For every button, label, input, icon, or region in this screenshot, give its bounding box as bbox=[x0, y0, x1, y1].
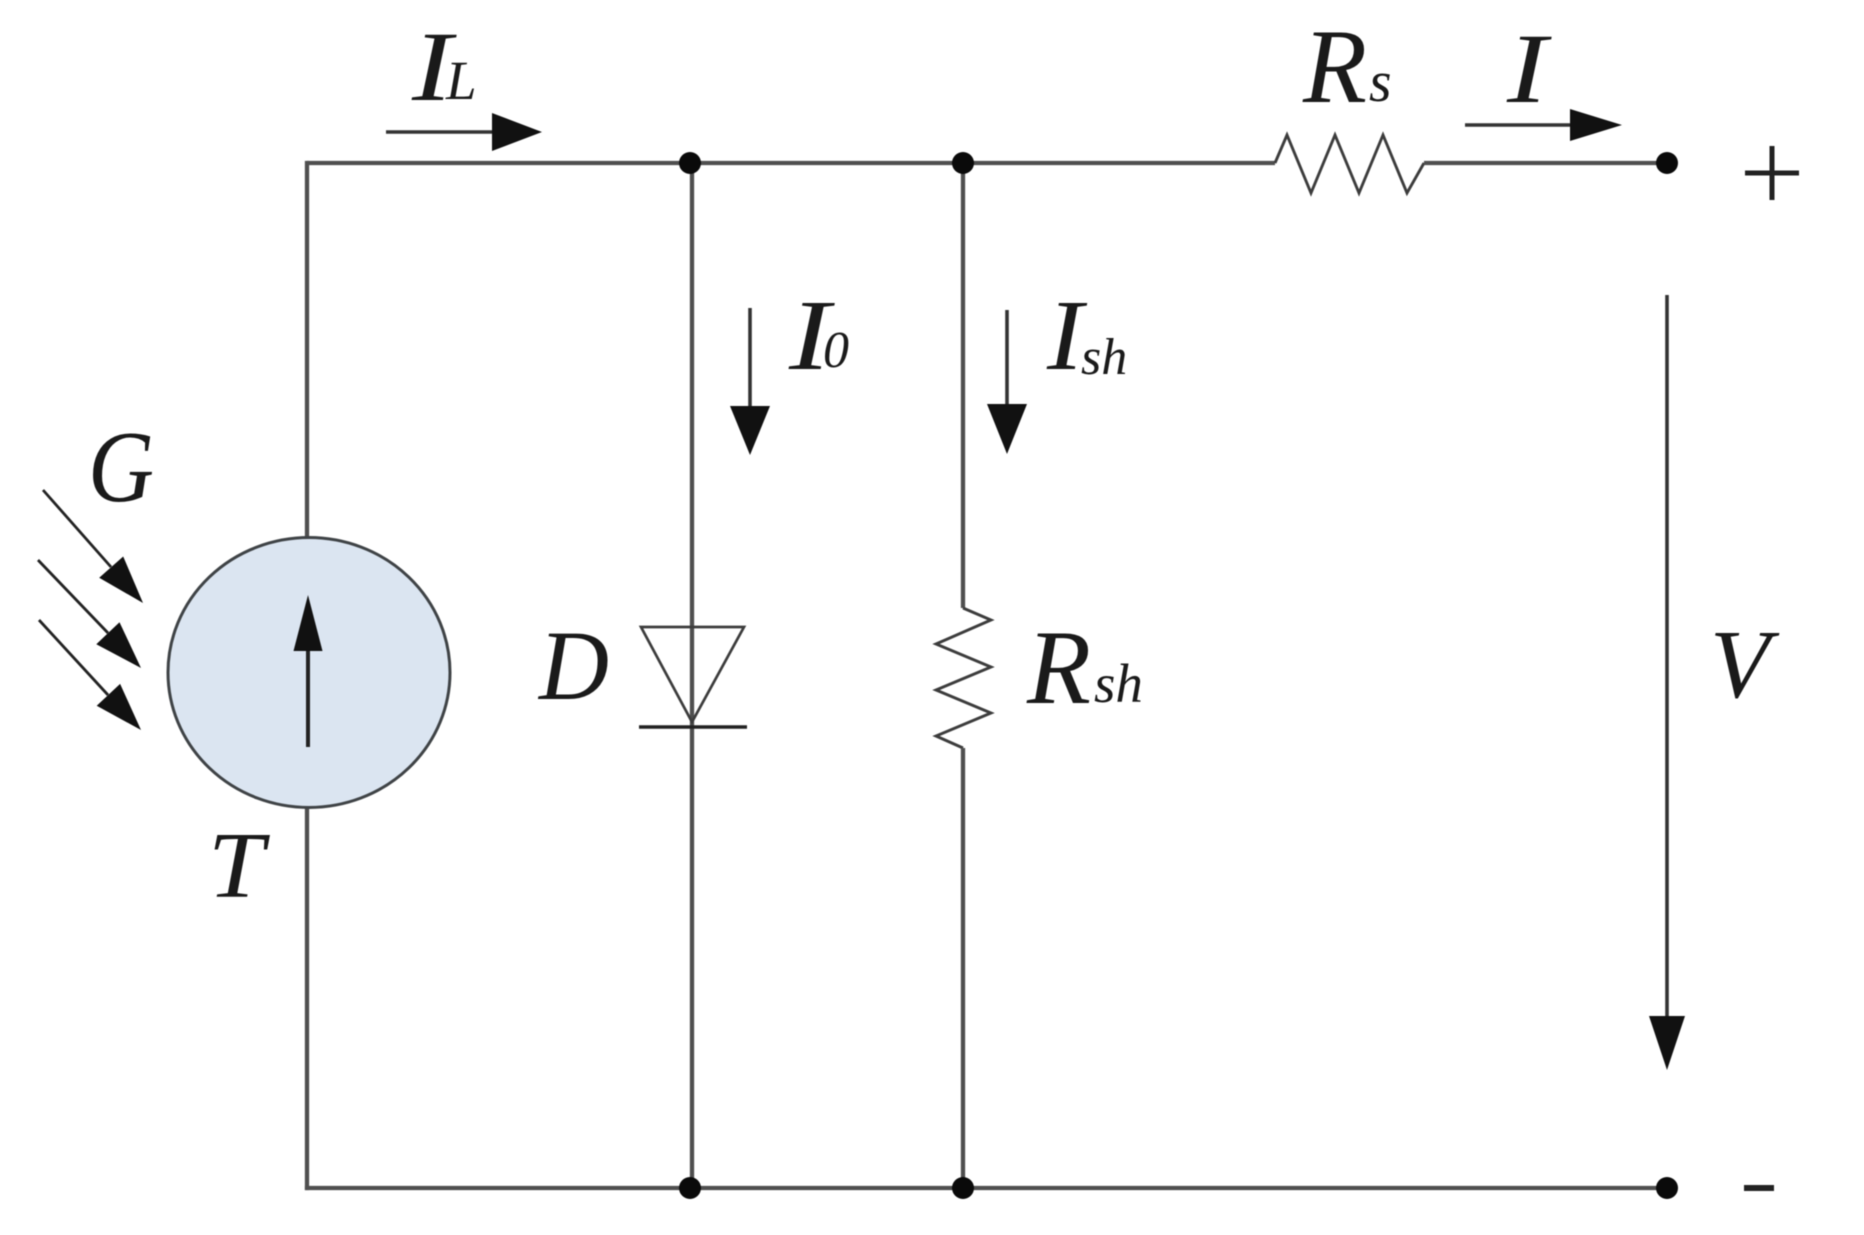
G irradiance arrow 2 bbox=[38, 560, 141, 668]
svg-text:L: L bbox=[445, 50, 477, 111]
resistor Rsh zigzag bbox=[936, 608, 991, 748]
svg-text:0: 0 bbox=[823, 322, 849, 379]
svg-text:s: s bbox=[1369, 49, 1392, 114]
I current arrow bbox=[1465, 109, 1622, 141]
node dot bottom Rsh bbox=[952, 1177, 974, 1199]
G irradiance arrow 1 bbox=[43, 490, 143, 603]
wire top: left segment bbox=[307, 161, 1275, 165]
node dot top diode bbox=[679, 152, 701, 174]
wire left vertical lower bbox=[305, 806, 309, 1190]
svg-text:I: I bbox=[1506, 13, 1553, 124]
wire top: right segment bbox=[1424, 161, 1667, 165]
diode D triangle bbox=[641, 627, 744, 722]
svg-text:V: V bbox=[1710, 611, 1780, 718]
current source arrow bbox=[294, 595, 323, 747]
node dot bottom right bbox=[1656, 1177, 1678, 1199]
node dot bottom diode bbox=[679, 1177, 701, 1199]
diode cathode bar bbox=[639, 725, 747, 728]
svg-text:sh: sh bbox=[1081, 329, 1127, 386]
node dot top Rsh bbox=[952, 152, 974, 174]
plus terminal bbox=[1745, 146, 1799, 200]
svg-text:sh: sh bbox=[1094, 653, 1143, 714]
Ish current arrow bbox=[987, 310, 1027, 454]
Rsh branch wire lower bbox=[961, 748, 965, 1188]
IL current arrow bbox=[386, 113, 542, 151]
svg-text:G: G bbox=[88, 411, 154, 524]
G irradiance arrow 3 bbox=[39, 620, 141, 730]
Rsh branch wire upper bbox=[961, 163, 965, 608]
svg-text:T: T bbox=[208, 814, 270, 918]
svg-text:R: R bbox=[1302, 8, 1367, 125]
I0 current arrow bbox=[730, 308, 770, 455]
svg-text:D: D bbox=[537, 610, 609, 721]
minus terminal bbox=[1744, 1185, 1774, 1191]
wire left vertical upper bbox=[305, 161, 309, 539]
current source circle bbox=[168, 538, 450, 808]
node dot top right bbox=[1656, 152, 1678, 174]
wire bottom bbox=[305, 1186, 1667, 1190]
diode branch wire bbox=[690, 163, 694, 1188]
resistor Rs zigzag bbox=[1275, 135, 1424, 193]
V voltage arrow bbox=[1649, 295, 1685, 1070]
svg-text:R: R bbox=[1026, 609, 1091, 726]
